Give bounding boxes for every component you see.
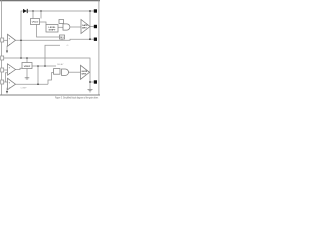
border frame left (1, 1, 3, 96)
wire driver U1 rail vertical (89, 11, 91, 39)
pin B+ box (1, 68, 4, 72)
svg-text:+: + (9, 37, 11, 40)
svg-text:t D: t D (66, 44, 69, 47)
svg-text:SHIFT: SHIFT (49, 30, 57, 32)
wire mid stub from UVLO bottom (37, 25, 60, 38)
op-amp U2 comparator B (8, 64, 16, 75)
svg-text:DELAY: DELAY (57, 63, 64, 66)
pin LIN box (1, 56, 4, 60)
svg-text:LEVEL: LEVEL (49, 27, 57, 29)
wire comparator C input (4, 81, 8, 83)
wire vref net (32, 65, 56, 67)
wire comparator A inverting drop (6, 46, 8, 51)
pin VS (94, 38, 97, 41)
wire UVLO drop 1 (32, 11, 34, 19)
wire UVLO drop 2 (40, 11, 42, 19)
op-amp U1 comparator A (8, 34, 16, 46)
wire comparator B output jog (16, 68, 23, 69)
wire UVLO to level shift (40, 22, 47, 25)
pin IN+ box (1, 38, 4, 42)
wire level shift to gate (58, 26, 63, 28)
wire gate to driver U2 (68, 71, 80, 73)
box UVLO (31, 19, 40, 25)
border frame bottom (0, 94, 100, 96)
pin HO (94, 25, 97, 28)
diode D1 bootstrap (23, 9, 28, 13)
pin C+ box (1, 80, 4, 84)
driver U4 high side triangle (81, 20, 90, 34)
node vref junction 2 (44, 65, 46, 67)
ground arrow comparator C (6, 91, 8, 94)
box delay (60, 35, 65, 39)
node VB junction (32, 10, 33, 11)
wire VS pin (90, 38, 94, 40)
op-amp U3 comparator C (8, 78, 16, 89)
wire delay box out (61, 39, 63, 40)
pin VB (94, 9, 97, 12)
svg-text:Figure 3. Simplified block dia: Figure 3. Simplified block diagram of th… (55, 96, 99, 100)
node vref junction 1 (37, 65, 39, 67)
wire comparator C output (16, 83, 49, 85)
wire LO pin (90, 81, 94, 83)
pin LO (94, 80, 97, 83)
node VB driver junction (89, 10, 91, 12)
gate AND high side (63, 24, 70, 30)
svg-text:COMP: COMP (21, 87, 28, 89)
svg-text:DRV: DRV (82, 73, 87, 75)
node comparator C output junction (37, 83, 39, 85)
border frame top (0, 0, 100, 2)
svg-text:+: + (9, 81, 11, 84)
wire vertical delay feedback (45, 45, 60, 66)
svg-text:UVLO: UVLO (32, 22, 39, 24)
wire staircase to filter box (48, 73, 54, 85)
svg-text:VREF: VREF (24, 66, 31, 68)
node VS junction (89, 38, 91, 40)
ground arrow comparator A (6, 51, 8, 54)
node LO junction (89, 81, 91, 83)
box low side filter (54, 69, 61, 75)
box LEVEL SHIFT (46, 25, 58, 33)
node VB junction 2 (40, 10, 41, 11)
svg-text:DRV: DRV (82, 28, 87, 30)
wire HO output (90, 26, 94, 28)
node comparator A output junction (20, 40, 22, 42)
node LIN junction 1 (20, 57, 22, 59)
wire OSC drop (26, 58, 28, 63)
driver U5 low side triangle (81, 65, 90, 79)
wire comparator A input (4, 39, 8, 41)
ground OSC (25, 78, 30, 79)
wire comparator B inverting route (6, 73, 8, 82)
wire LIN rail y58 (4, 58, 90, 89)
wire gate to driver U1 (70, 26, 81, 28)
node LIN junction 2 (26, 57, 28, 59)
wire vertical comp link (37, 66, 39, 84)
wire comparator C inverting drop (6, 88, 8, 91)
wire VB top rail with corner (21, 11, 95, 58)
svg-text:+: + (9, 67, 11, 70)
wire comparator B input (4, 69, 8, 71)
ground COM (88, 90, 93, 92)
box small pulse trigger (59, 20, 64, 24)
gate AND low side (62, 69, 69, 75)
border frame right (98, 1, 100, 96)
wire comparator A output long rail (16, 39, 91, 40)
box OSC/VREF (22, 63, 32, 69)
wire OSC ground drop (26, 69, 28, 78)
